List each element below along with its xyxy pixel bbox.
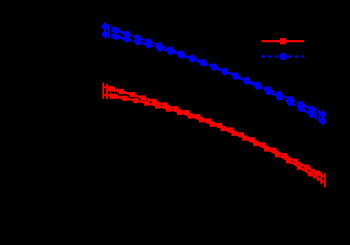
series blue-upper (dashed line, open circle markers) line (105, 27, 323, 115)
series blue-lower (dashed line, open circle markers) markers (103, 32, 325, 123)
legend blue open circle marker (281, 54, 286, 59)
series blue-lower (dashed line, open circle markers) error bars (105, 30, 323, 125)
legend red sample line (262, 40, 305, 42)
series blue-upper (dashed line, open circle markers) markers (103, 24, 325, 116)
series blue-upper (dashed line, open circle markers) error bars (105, 22, 323, 118)
series red-lower (solid line, filled square markers) error bars (103, 90, 325, 187)
series red-lower (solid line, filled square markers) markers (112, 94, 313, 177)
series red-upper (solid line, filled square markers) error bars (103, 83, 325, 182)
series blue-lower (dashed line, open circle markers) line (105, 34, 323, 121)
series red-upper (solid line, filled square markers) markers (108, 86, 320, 176)
legend red filled square marker (280, 38, 286, 44)
series red-upper (solid line, filled square markers) line (103, 87, 325, 178)
series red-lower (solid line, filled square markers) line (103, 95, 325, 183)
legend blue dashed sample line (262, 55, 305, 57)
